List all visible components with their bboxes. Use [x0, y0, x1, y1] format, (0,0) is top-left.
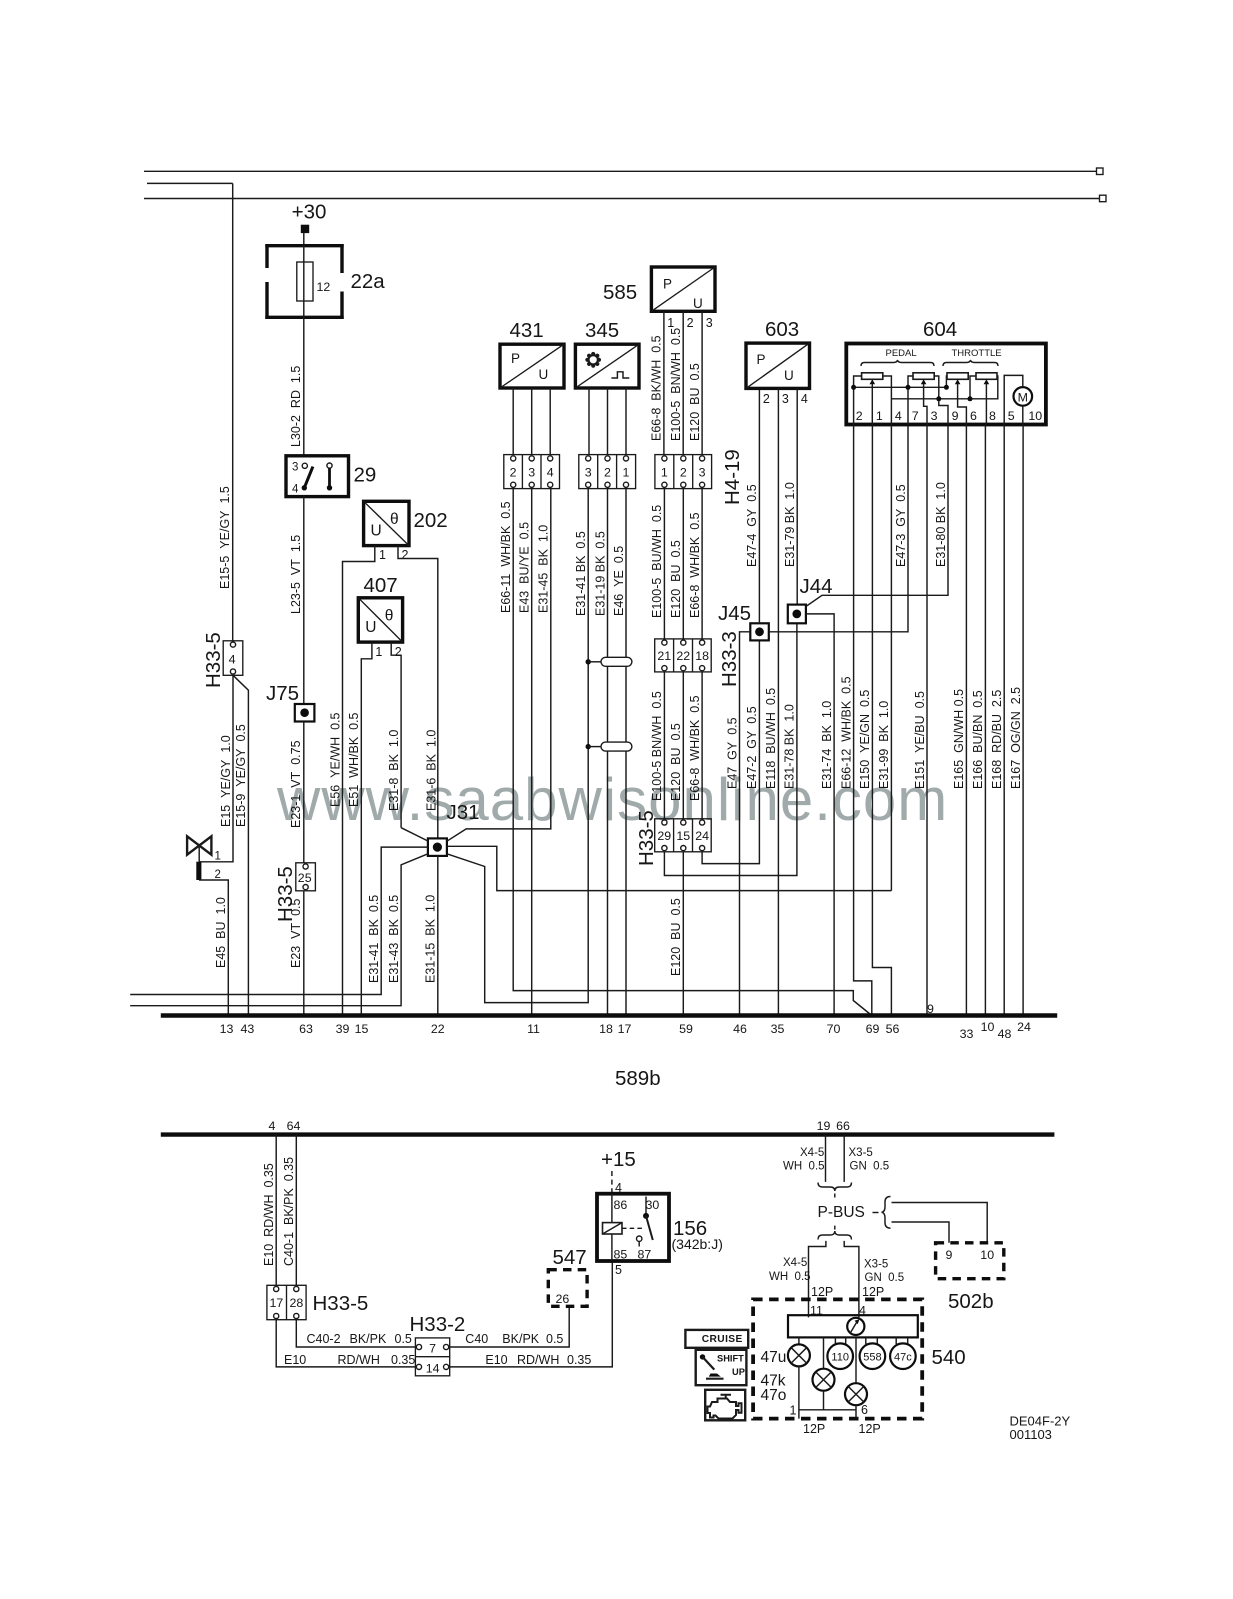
bus node 63: [299, 1022, 313, 1036]
wire C40-2 BK/PK 0.5 to H33-2 pin 7: [296, 1320, 415, 1347]
wire E120 BU 0.5: [688, 363, 702, 441]
svg-text:12P: 12P: [811, 1285, 833, 1299]
svg-text:E23 VT 0.5: E23 VT 0.5: [289, 898, 303, 968]
power rail top 1: [144, 168, 1103, 175]
svg-text:2: 2: [687, 316, 694, 330]
bus node 46: [733, 1022, 747, 1036]
svg-text:604: 604: [923, 318, 957, 341]
wire E100-5 BN/WH 0.5 (low): [650, 691, 664, 801]
svg-text:64: 64: [287, 1119, 301, 1133]
svg-text:5: 5: [615, 1263, 622, 1277]
wire X4-5 WH 0.5 (upper): [783, 1135, 826, 1182]
wire X3-5 GN 0.5 (upper): [844, 1135, 889, 1182]
svg-text:E31-43 BK 0.5: E31-43 BK 0.5: [387, 895, 401, 983]
splice capsule 2 on E31-41: [586, 742, 632, 751]
wire C40-1 BK/PK 0.35: [282, 1135, 296, 1286]
svg-text:E31-78 BK 1.0: E31-78 BK 1.0: [783, 704, 797, 789]
svg-text:PEDAL: PEDAL: [886, 348, 917, 359]
svg-text:001103: 001103: [1010, 1427, 1052, 1442]
svg-text:47u: 47u: [761, 1349, 787, 1366]
ground bus 589b: [161, 1016, 1057, 1091]
svg-text:10: 10: [1028, 409, 1042, 423]
svg-text:8: 8: [989, 409, 996, 423]
indicator SHIFT UP: [696, 1350, 747, 1385]
svg-text:3: 3: [699, 466, 706, 480]
wire E31-45 BK 1.0: [537, 525, 551, 613]
svg-text:E31-15 BK 1.0: E31-15 BK 1.0: [423, 895, 437, 983]
bus node 48: [998, 1027, 1012, 1041]
604 potentiometer 1: [862, 373, 883, 385]
wire E66-11 WH/BK 0.5: [499, 489, 872, 1016]
407 pin 1: [361, 642, 382, 1015]
svg-text:RD/WH: RD/WH: [517, 1353, 559, 1367]
svg-text:4: 4: [801, 392, 808, 406]
svg-text:0.35: 0.35: [391, 1353, 415, 1367]
svg-text:1: 1: [379, 548, 386, 562]
wire E31-79 BK 1.0 603 pin4 to J44: [783, 388, 797, 604]
sensor 407: [358, 574, 402, 642]
wire E120 BU 0.5 (low): [669, 723, 683, 801]
wire +15 dashed feed: [612, 1171, 622, 1195]
node +30: [292, 201, 327, 234]
svg-text:43: 43: [241, 1022, 255, 1036]
svg-text:U: U: [365, 619, 376, 636]
svg-text:15: 15: [355, 1022, 369, 1036]
wire E167 OG/GN 2.5 604 pin10 to bus 24: [1009, 425, 1023, 1016]
connector H33-5 pin 4: [202, 632, 243, 688]
bus node 24: [1017, 1020, 1031, 1034]
svg-text:E10: E10: [485, 1353, 507, 1367]
svg-text:18: 18: [695, 649, 709, 663]
svg-text:L23-5 VT 1.5: L23-5 VT 1.5: [289, 535, 303, 614]
svg-text:E15 YE/GY 1.0: E15 YE/GY 1.0: [219, 735, 233, 827]
cable brace lower: [818, 1226, 852, 1240]
wire E31-6 BK 1.0: [424, 730, 438, 811]
bus node 35: [771, 1022, 785, 1036]
svg-text:26: 26: [556, 1292, 570, 1306]
wire E118 BU/WH 0.5 603 pin3 to bus 35: [764, 388, 778, 1015]
bus node 66: [836, 1119, 850, 1133]
svg-text:E120 BU 0.5: E120 BU 0.5: [688, 363, 702, 441]
wire E10 RD/WH 0.35 to relay 156 pin 5: [450, 1261, 613, 1367]
wire E120 BU 0.5 (mid): [669, 540, 683, 618]
wire E47 GY 0.5 J45 to bus 46: [725, 632, 750, 1016]
svg-text:+15: +15: [601, 1148, 636, 1171]
svg-text:14: 14: [426, 1362, 440, 1376]
joint J45: [718, 602, 769, 640]
540 internal bar with speedometer icon: [788, 1315, 918, 1337]
wire E31-74 BK 1.0 J44 to bus 70: [806, 614, 834, 1016]
connector H33-5 pin 25: [274, 863, 315, 922]
svg-text:110: 110: [831, 1351, 849, 1363]
doc number DE04F-2Y 001103: [1010, 1414, 1071, 1443]
svg-text:P: P: [511, 351, 520, 366]
svg-text:540: 540: [932, 1346, 966, 1369]
power rail top 2 (to +54 feed): [147, 182, 233, 184]
svg-text:J45: J45: [718, 602, 751, 625]
svg-text:E167 OG/GN 2.5: E167 OG/GN 2.5: [1009, 687, 1023, 789]
wire E168 RD/BU 2.5 604 pin5 to bus 48: [990, 425, 1004, 1016]
indicator CRUISE: [685, 1330, 748, 1348]
wire J31 E31-15 BK 1.0 to bus 22: [423, 856, 438, 1016]
svg-text:E31-19 BK 0.5: E31-19 BK 0.5: [593, 531, 607, 616]
lower bus rail: [161, 1132, 1055, 1136]
connector H33-2 pins 7 14: [410, 1313, 466, 1376]
fuse 22a: [265, 244, 385, 319]
345 pin wires: [589, 388, 626, 455]
bus node 39: [336, 1022, 350, 1036]
svg-text:3: 3: [782, 392, 789, 406]
wire E56 YE/WH 0.5: [328, 712, 342, 807]
svg-text:E66-11 WH/BK 0.5: E66-11 WH/BK 0.5: [499, 501, 513, 613]
watermark www.saabwisonline.com: [276, 766, 948, 833]
svg-text:H33-3: H33-3: [718, 631, 741, 687]
svg-text:E47-4 GY 0.5: E47-4 GY 0.5: [745, 484, 759, 567]
svg-text:17: 17: [270, 1296, 284, 1310]
svg-text:28: 28: [290, 1296, 304, 1310]
bus node 19: [817, 1119, 831, 1133]
valve (EVAP): [187, 836, 221, 881]
svg-text:(342b:J): (342b:J): [672, 1236, 723, 1252]
svg-text:H33-2: H33-2: [410, 1313, 466, 1336]
svg-text:E56 YE/WH 0.5: E56 YE/WH 0.5: [328, 712, 342, 807]
svg-text:5: 5: [1008, 409, 1015, 423]
202 pin 1: [343, 546, 387, 1016]
wire J31 left leg E31-41 BK 0.5 to ground rail: [130, 847, 428, 994]
svg-text:WH 0.5: WH 0.5: [783, 1161, 825, 1173]
svg-text:U: U: [371, 523, 382, 540]
svg-text:E47-3 GY 0.5: E47-3 GY 0.5: [894, 484, 908, 567]
svg-text:E47-2 GY 0.5: E47-2 GY 0.5: [745, 706, 759, 789]
svg-text:E15-9 YE/GY 0.5: E15-9 YE/GY 0.5: [234, 724, 248, 827]
svg-text:E31-6 BK 1.0: E31-6 BK 1.0: [424, 730, 438, 811]
instrument cluster 540: [753, 1299, 966, 1418]
svg-text:THROTTLE: THROTTLE: [952, 348, 1002, 359]
connector H4-19 pins 1 2 3: [655, 449, 744, 505]
svg-text:33: 33: [960, 1027, 974, 1041]
svg-text:J75: J75: [266, 682, 299, 705]
svg-text:7: 7: [429, 1342, 436, 1356]
node +15: [601, 1148, 636, 1171]
svg-text:E31-8 BK 1.0: E31-8 BK 1.0: [387, 730, 401, 811]
svg-text:63: 63: [299, 1022, 313, 1036]
unit 604 throttle/pedal module: [846, 318, 1046, 425]
svg-text:U: U: [693, 296, 703, 311]
svg-text:2: 2: [856, 409, 863, 423]
603 pin labels 2 3 4: [763, 392, 808, 406]
wires H4-19 to H33-3: [664, 489, 702, 639]
604 potentiometer 2: [913, 373, 934, 385]
svg-text:θ: θ: [390, 511, 399, 528]
svg-text:29: 29: [657, 829, 671, 843]
svg-text:E31-41 BK 0.5: E31-41 BK 0.5: [574, 531, 588, 616]
svg-text:E66-8 BK/WH 0.5: E66-8 BK/WH 0.5: [650, 335, 664, 441]
svg-text:1: 1: [375, 645, 382, 659]
540 gauge 47c: [890, 1337, 916, 1369]
wire E15-5 YE/GY 1.5: [218, 183, 233, 640]
wire E43 BU/YE 0.5: [518, 489, 532, 1016]
wire E31-99 BK 1.0 604 pin4 to J31 link: [877, 425, 891, 891]
wire E15-9 YE/GY 0.5: [233, 675, 248, 1015]
wire E31-80 BK 1.0 J44 to 604 pin 9: [806, 425, 948, 607]
sensor 585: [603, 267, 715, 311]
joint J44: [788, 575, 833, 623]
svg-text:4: 4: [229, 653, 236, 667]
svg-text:E66-8 WH/BK 0.5: E66-8 WH/BK 0.5: [688, 695, 702, 801]
svg-text:E100-5 BN/WH 0.5: E100-5 BN/WH 0.5: [650, 691, 664, 801]
svg-text:87: 87: [638, 1248, 652, 1262]
svg-text:2: 2: [680, 466, 687, 480]
svg-text:12P: 12P: [803, 1422, 825, 1436]
wire E23-1 VT 0.75: [289, 722, 304, 863]
svg-text:CRUISE: CRUISE: [702, 1334, 743, 1345]
svg-text:1: 1: [661, 466, 668, 480]
svg-text:E66-12 WH/BK 0.5: E66-12 WH/BK 0.5: [839, 676, 853, 789]
bus node 70: [827, 1022, 841, 1036]
wire 156 pin 5: [615, 1263, 622, 1277]
svg-text:47o: 47o: [761, 1387, 787, 1404]
wire E31-41 BK 0.5 (sensor leg): [574, 531, 588, 616]
svg-text:GN 0.5: GN 0.5: [865, 1272, 905, 1284]
wire J31 top-right to E31-45: [447, 489, 551, 842]
svg-text:30: 30: [646, 1198, 660, 1212]
svg-text:6: 6: [861, 1403, 868, 1417]
svg-text:+30: +30: [292, 201, 327, 224]
wire E45 BU 1.0: [199, 880, 228, 1016]
svg-text:RD/WH: RD/WH: [338, 1353, 380, 1367]
540 lamp 47k: [761, 1337, 835, 1390]
bus node 69: [866, 1022, 880, 1036]
svg-text:56: 56: [886, 1022, 900, 1036]
svg-text:E15-5 YE/GY 1.5: E15-5 YE/GY 1.5: [218, 486, 232, 589]
svg-text:E151 YE/BU 0.5: E151 YE/BU 0.5: [913, 691, 927, 789]
svg-text:69: 69: [866, 1022, 880, 1036]
svg-text:E47 GY 0.5: E47 GY 0.5: [725, 717, 739, 789]
wire L30-2 RD 1.5: [289, 319, 304, 456]
wire J31 E31-43 BK 0.5 to ground rail: [130, 854, 428, 1006]
svg-text:U: U: [784, 368, 794, 383]
bus node 11: [527, 1022, 540, 1036]
540 gauge 110: [827, 1337, 853, 1369]
540 lamp 47o: [761, 1337, 868, 1405]
svg-text:7: 7: [912, 409, 919, 423]
bus node 17: [618, 1022, 632, 1036]
svg-text:59: 59: [679, 1022, 693, 1036]
svg-text:E120 BU 0.5: E120 BU 0.5: [669, 723, 683, 801]
604 internal rail B: [883, 376, 998, 425]
svg-text:345: 345: [585, 319, 619, 342]
connector H33-3 pins 21 22 18: [655, 631, 741, 687]
svg-text:46: 46: [733, 1022, 747, 1036]
svg-text:J44: J44: [800, 575, 833, 598]
svg-text:C40-1 BK/PK 0.35: C40-1 BK/PK 0.35: [282, 1157, 296, 1266]
407 pin 2: [391, 642, 402, 828]
bus node 10: [981, 1020, 995, 1034]
wire E51 WH/BK 0.5: [347, 712, 361, 807]
svg-text:H33-5: H33-5: [202, 632, 225, 688]
svg-text:1: 1: [623, 466, 630, 480]
connector under 431 pins 2 3 4: [504, 455, 560, 489]
svg-text:SHIFT: SHIFT: [717, 1353, 744, 1363]
sensor 431: [500, 319, 564, 388]
svg-text:202: 202: [414, 509, 448, 532]
wire J31 to E31-41 sensor leg (via loop): [447, 489, 588, 1003]
svg-text:66: 66: [836, 1119, 850, 1133]
svg-text:2: 2: [215, 869, 221, 881]
svg-text:E46 YE 0.5: E46 YE 0.5: [612, 546, 626, 616]
svg-text:4: 4: [292, 484, 299, 496]
svg-text:21: 21: [657, 649, 671, 663]
svg-text:4: 4: [547, 466, 554, 480]
svg-text:24: 24: [695, 829, 709, 843]
svg-text:P-BUS: P-BUS: [818, 1204, 865, 1221]
svg-text:U: U: [539, 367, 549, 382]
wires H33-3 to H33-5: [664, 672, 702, 819]
svg-text:3: 3: [585, 466, 592, 480]
svg-text:29: 29: [354, 464, 377, 487]
604 pin labels: [856, 409, 1042, 423]
svg-text:603: 603: [765, 318, 799, 341]
svg-text:E100-5 BU/WH 0.5: E100-5 BU/WH 0.5: [650, 505, 664, 618]
wire E23 VT 0.5: [289, 891, 304, 1016]
bus node 43: [241, 1022, 255, 1036]
wire E31-8 diagonal into J31: [401, 828, 428, 841]
svg-text:E118 BU/WH 0.5: E118 BU/WH 0.5: [764, 688, 778, 789]
604 motor M: [1004, 375, 1032, 424]
svg-text:1: 1: [876, 409, 883, 423]
wire J31 right to E31-99 long link: [447, 846, 892, 890]
svg-text:E43 BU/YE 0.5: E43 BU/YE 0.5: [518, 522, 532, 613]
svg-text:3: 3: [706, 316, 713, 330]
svg-text:48: 48: [998, 1027, 1012, 1041]
bus node 33: [960, 1027, 974, 1041]
connector H33-5 pins 17 28: [267, 1285, 368, 1319]
svg-text:19: 19: [817, 1119, 831, 1133]
bus node 13: [220, 1022, 234, 1036]
svg-text:35: 35: [771, 1022, 785, 1036]
svg-text:22: 22: [676, 649, 690, 663]
svg-text:13: 13: [220, 1022, 234, 1036]
svg-text:E31-79 BK 1.0: E31-79 BK 1.0: [783, 482, 797, 567]
svg-text:BK/PK: BK/PK: [350, 1332, 387, 1346]
svg-text:2: 2: [510, 466, 517, 480]
svg-text:X4-5: X4-5: [800, 1147, 824, 1159]
svg-text:E120 BU 0.5: E120 BU 0.5: [669, 898, 683, 976]
604 potentiometer 3: [947, 373, 968, 385]
svg-text:E31-74 BK 1.0: E31-74 BK 1.0: [820, 701, 834, 789]
svg-text:22: 22: [431, 1022, 445, 1036]
svg-text:4: 4: [895, 409, 902, 423]
net P-BUS: [818, 1204, 865, 1221]
svg-text:E166 BU/BN 0.5: E166 BU/BN 0.5: [971, 690, 985, 789]
sensor 603: [746, 318, 810, 388]
svg-text:3: 3: [528, 466, 535, 480]
wire +30 to fuse 22a: [303, 233, 305, 245]
svg-text:X4-5: X4-5: [783, 1257, 807, 1269]
bus node 59: [679, 1022, 693, 1036]
svg-text:E31-80 BK 1.0: E31-80 BK 1.0: [934, 482, 948, 567]
svg-text:589b: 589b: [615, 1067, 661, 1090]
svg-text:H33-5: H33-5: [313, 1292, 369, 1315]
svg-text:E150 YE/GN 0.5: E150 YE/GN 0.5: [858, 690, 872, 789]
power rail top 3: [144, 195, 1106, 202]
wire E47-4 GY 0.5 J45 to 603 pin 2: [745, 388, 759, 623]
svg-text:10: 10: [981, 1020, 995, 1034]
svg-text:E23-1 VT 0.75: E23-1 VT 0.75: [289, 740, 303, 828]
svg-text:P: P: [757, 352, 766, 367]
svg-text:22a: 22a: [351, 270, 386, 293]
svg-text:2: 2: [604, 466, 611, 480]
wire E31-78 link H33-5 pin29 to J44: [664, 623, 797, 875]
cable brace upper: [818, 1183, 852, 1200]
wire E151 YE/BU 0.5 604 pin3 to bus 9: [913, 425, 927, 1016]
svg-text:2: 2: [402, 548, 409, 562]
bus node 64: [287, 1119, 301, 1133]
relay 156: [597, 1194, 723, 1262]
svg-text:24: 24: [1017, 1020, 1031, 1034]
wire E120 BU 0.5 to bus 59: [669, 852, 683, 1016]
svg-text:C40: C40: [465, 1332, 488, 1346]
svg-text:9: 9: [927, 1002, 934, 1016]
svg-text:P: P: [663, 277, 672, 292]
604 internal rail A: [851, 376, 949, 425]
svg-text:0.35: 0.35: [567, 1353, 591, 1367]
bus node 56: [886, 1022, 900, 1036]
wire E10 RD/WH 0.35 to H33-2 pin 14: [276, 1320, 415, 1367]
wire E66-8 WH/BK 0.5 (mid): [688, 512, 702, 618]
svg-text:6: 6: [970, 409, 977, 423]
svg-text:15: 15: [676, 829, 690, 843]
bus node 18: [599, 1022, 613, 1036]
svg-text:C40-2: C40-2: [307, 1332, 341, 1346]
svg-text:0.5: 0.5: [546, 1332, 563, 1346]
wire E66-8 WH/BK 0.5 (low): [688, 695, 702, 801]
connector under 345 pins 3 2 1: [579, 455, 636, 489]
wire E47-2 GY 0.5 H33-5 pin24 to J45: [702, 640, 759, 863]
585 pin wires 1 2 3: [664, 311, 713, 454]
svg-text:E51 WH/BK 0.5: E51 WH/BK 0.5: [347, 712, 361, 807]
svg-text:E120 BU 0.5: E120 BU 0.5: [669, 540, 683, 618]
svg-text:85: 85: [614, 1248, 628, 1262]
604 wiper links: [872, 384, 986, 425]
svg-text:502b: 502b: [948, 1290, 994, 1313]
svg-text:E168 RD/BU 2.5: E168 RD/BU 2.5: [990, 690, 1004, 789]
svg-text:1: 1: [215, 851, 221, 863]
svg-text:GN 0.5: GN 0.5: [850, 1161, 890, 1173]
P-BUS tap brace: [873, 1197, 988, 1243]
splice capsule 1 on E31-41: [586, 657, 632, 666]
bus node 22: [431, 1022, 445, 1036]
svg-text:UP: UP: [732, 1367, 745, 1377]
431 pin wires: [513, 388, 550, 455]
module 502b: [936, 1243, 1004, 1313]
wire E15 YE/GY 1.0: [199, 675, 233, 862]
bus node 4: [269, 1119, 276, 1133]
svg-text:70: 70: [827, 1022, 841, 1036]
svg-text:H33-5: H33-5: [635, 810, 658, 866]
svg-text:BK/PK: BK/PK: [502, 1332, 539, 1346]
wire E165 GN/WH 0.5 604 pin6 to bus 33: [952, 425, 966, 1016]
wire E66-8 BK/WH 0.5: [650, 335, 664, 441]
svg-text:E31-45 BK 1.0: E31-45 BK 1.0: [537, 525, 551, 613]
svg-text:585: 585: [603, 281, 637, 304]
svg-text:E165 GN/WH 0.5: E165 GN/WH 0.5: [952, 689, 966, 789]
svg-text:E10: E10: [284, 1353, 306, 1367]
svg-text:X3-5: X3-5: [849, 1147, 873, 1159]
wire E66-12 WH/BK 0.5 604 pin2 to bus 69: [839, 425, 871, 1016]
indicator check-engine: [705, 1390, 745, 1421]
svg-text:18: 18: [599, 1022, 613, 1036]
